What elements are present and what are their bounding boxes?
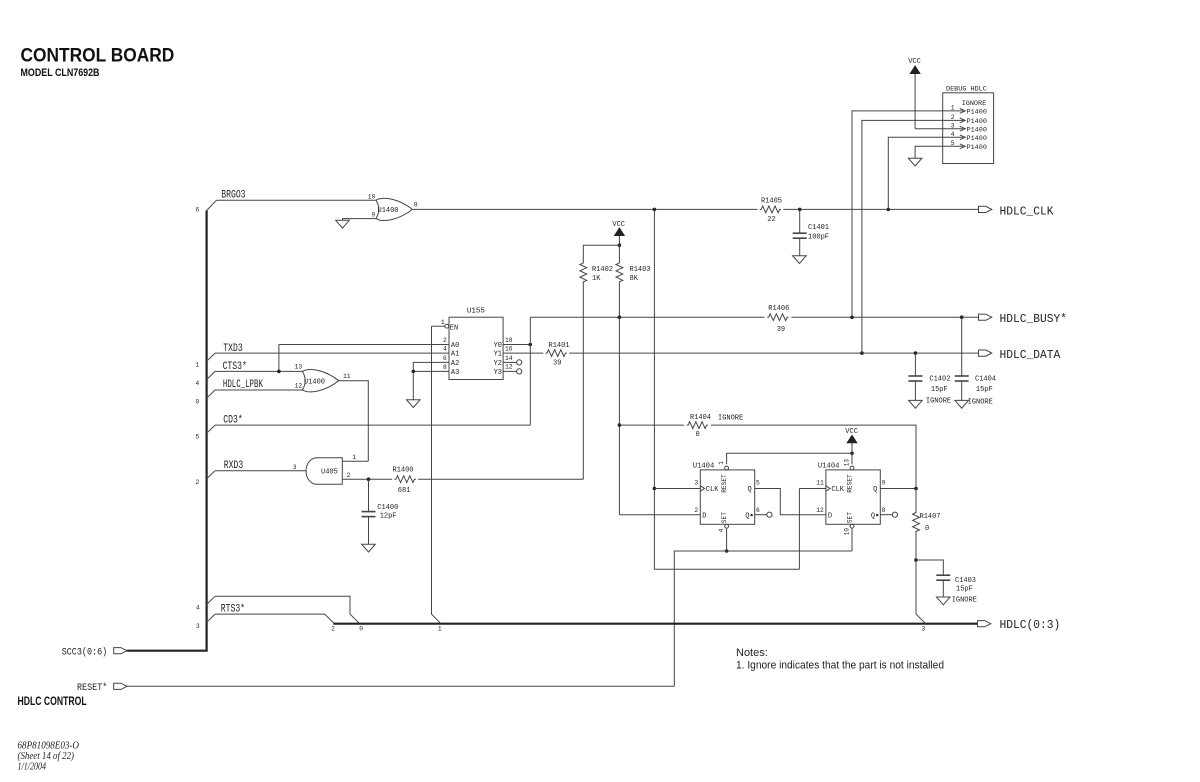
svg-text:RXD3: RXD3 [224, 460, 244, 472]
junction R1404 tap [618, 423, 622, 427]
or-gate U1400 top [376, 200, 379, 218]
svg-text:HDLC CONTROL: HDLC CONTROL [18, 696, 87, 708]
wire TXD3 to U155 A1 [215, 352, 449, 354]
svg-text:SET: SET [847, 512, 854, 523]
pin 13 RESET bubble FF2 [850, 466, 854, 470]
wire R1407 column upper [915, 489, 917, 512]
svg-text:CLK: CLK [831, 486, 844, 494]
svg-text:BRGO3: BRGO3 [221, 189, 245, 201]
bus entry HDLC_LPBK bit 0 [207, 390, 215, 398]
svg-text:R1401: R1401 [549, 342, 570, 350]
svg-text:Q: Q [873, 486, 877, 494]
wire HDLC_DATA line [569, 352, 978, 354]
svg-text:3: 3 [922, 626, 926, 633]
wire R1404 line right [711, 425, 916, 488]
svg-text:1/1/2004: 1/1/2004 [18, 761, 47, 772]
resistor R1401 39 [545, 350, 566, 357]
bus HDLC(0:3) [333, 623, 977, 625]
junction C1401 [798, 208, 802, 212]
pin 4 SET bubble FF1 [725, 524, 729, 528]
bus entry RTS3* bit 3 [207, 614, 215, 622]
svg-text:16: 16 [505, 346, 513, 353]
svg-text:12: 12 [816, 507, 824, 514]
junction C1400 [367, 477, 371, 481]
ground at C1404 [955, 400, 969, 408]
svg-text:P1400: P1400 [967, 144, 987, 152]
svg-text:CTS3*: CTS3* [223, 361, 247, 373]
junction A2 A3 ground [412, 370, 416, 374]
svg-text:R1402: R1402 [592, 266, 613, 274]
svg-text:R1407: R1407 [920, 513, 941, 521]
svg-text:HDLC(0:3): HDLC(0:3) [1000, 618, 1061, 632]
wire CLK riser [653, 209, 655, 569]
bus SCC3 vertical [127, 211, 207, 651]
wire R1402 bottom to RXD3 filter node [582, 283, 584, 479]
wire RTS3* [215, 614, 334, 624]
wire Q9 to R1407 column [880, 488, 916, 490]
resistor R1404 0 IGNORE [687, 422, 708, 429]
connector DEBUG HDLC box [943, 93, 994, 164]
wire FF2 CLK riser [798, 489, 800, 570]
wire CTS3* to U1400 pin 13 [215, 370, 304, 372]
connector HDLC_BUSY* output [979, 314, 992, 320]
wire A2 jog to ground node [413, 362, 449, 371]
junction C1403 tap [914, 558, 918, 562]
svg-text:9: 9 [882, 480, 886, 487]
wire R1403 bottom to HDLC_BUSY [618, 283, 620, 317]
svg-text:681: 681 [398, 487, 411, 495]
svg-text:11: 11 [816, 480, 824, 487]
wire U405 pin 1 [342, 460, 368, 462]
svg-text:5: 5 [195, 434, 199, 441]
wire Y0 to riser [503, 344, 530, 346]
junction FF1 CLK tap [653, 487, 657, 491]
resistor R1406 39 [767, 314, 788, 321]
svg-text:U1404: U1404 [693, 463, 715, 471]
junction C1404 on BUSY [960, 315, 964, 319]
ground at DEBUG pin5 [908, 158, 922, 166]
svg-text:U1400: U1400 [378, 207, 399, 215]
junction Q9 [914, 487, 918, 491]
svg-text:VCC: VCC [908, 58, 921, 66]
svg-text:Y2: Y2 [494, 360, 502, 368]
wire HDLC_LPBK to U1400 pin 12 [215, 389, 304, 391]
wire U1400 pin 9 to ground [343, 219, 376, 221]
ground at C1402 [909, 400, 923, 408]
svg-text:22: 22 [767, 216, 775, 224]
svg-text:15pF: 15pF [931, 386, 948, 394]
svg-text:68P81098E03-O: 68P81098E03-O [18, 741, 80, 752]
wire FF2 CLK feed [799, 488, 826, 490]
svg-text:VCC: VCC [845, 428, 858, 436]
svg-text:MODEL CLN7692B: MODEL CLN7692B [21, 67, 100, 79]
wire HDLC_BUSY line right [791, 316, 978, 318]
junction CLK riser [653, 208, 657, 212]
junction FF1 SET [725, 549, 729, 553]
svg-text:18: 18 [505, 337, 513, 344]
wire A3 to ground node [413, 370, 449, 372]
pin 3 CLK FF1 [700, 486, 704, 491]
svg-text:Notes:: Notes: [736, 647, 768, 659]
svg-text:IGNORE: IGNORE [952, 597, 977, 605]
junction Y0 [529, 343, 533, 347]
wire EN to riser [432, 325, 445, 327]
bus entry CTS3* bit 4 [207, 371, 215, 379]
svg-text:8K: 8K [630, 275, 639, 283]
svg-text:IGNORE: IGNORE [968, 399, 993, 407]
svg-text:2: 2 [195, 479, 199, 486]
svg-text:1: 1 [438, 625, 442, 632]
resistor R1403 8K [616, 261, 623, 283]
svg-text:D: D [702, 512, 706, 520]
wire CD3* [215, 424, 530, 426]
wire DEBUG pin5 to ground [915, 146, 943, 158]
svg-text:0: 0 [195, 399, 199, 406]
wire HDLC_CLK line right [783, 208, 978, 210]
svg-text:U1404: U1404 [818, 463, 840, 471]
junction DEBUG pin1 on BUSY [850, 315, 854, 319]
svg-text:4: 4 [443, 346, 447, 353]
svg-text:12pF: 12pF [380, 512, 397, 520]
wire Q1 to D2 [755, 489, 826, 515]
svg-text:RESET*: RESET* [77, 682, 107, 693]
junction VCC rail [618, 243, 622, 247]
svg-text:TXD3: TXD3 [223, 343, 243, 355]
svg-text:R1405: R1405 [761, 197, 782, 205]
junction DEBUG pin4 drop [887, 208, 891, 212]
ground at C1401 [793, 256, 807, 264]
wire FF2 SET stem [851, 528, 853, 551]
svg-text:10: 10 [368, 193, 376, 200]
svg-text:1: 1 [718, 461, 725, 465]
junction DEBUG pin2 on DATA [860, 351, 864, 355]
svg-text:IGNORE: IGNORE [962, 100, 986, 108]
svg-text:U155: U155 [467, 308, 486, 316]
svg-text:0: 0 [925, 525, 929, 533]
capacitor C1400 12pF [368, 479, 370, 511]
resistor R1402 1K [580, 261, 587, 283]
resistor R1405 [760, 206, 781, 213]
svg-text:4: 4 [718, 528, 725, 532]
svg-text:VCC: VCC [612, 221, 625, 229]
svg-text:C1402: C1402 [929, 375, 950, 383]
svg-text:15pF: 15pF [956, 586, 973, 594]
svg-text:HDLC_BUSY*: HDLC_BUSY* [1000, 312, 1068, 326]
wire FF1 CLK feed [654, 488, 700, 490]
svg-text:Y3: Y3 [494, 369, 502, 377]
svg-text:C1403: C1403 [955, 577, 976, 585]
svg-text:CD3*: CD3* [223, 414, 242, 426]
svg-text:4: 4 [196, 604, 200, 611]
svg-text:Y0: Y0 [494, 342, 502, 350]
svg-text:12: 12 [505, 364, 513, 371]
bus entry RXD3 bit 2 [207, 471, 215, 479]
connector RESET* input [114, 683, 127, 689]
svg-text:2: 2 [347, 472, 351, 479]
svg-text:A2: A2 [451, 360, 459, 368]
wire FF1 D feed [619, 514, 700, 516]
ground at U155 A2 A3 [407, 400, 421, 408]
svg-text:HDLC_DATA: HDLC_DATA [1000, 348, 1061, 362]
svg-text:C1400: C1400 [377, 504, 398, 512]
pin 10 SET bubble FF2 [850, 524, 854, 528]
svg-text:RESET: RESET [721, 474, 728, 493]
svg-text:14: 14 [505, 355, 513, 362]
wire BRGO3 [217, 199, 376, 201]
svg-text:EN: EN [450, 324, 458, 332]
wire U1400 pin 11 to U405 pin 1 [339, 381, 369, 462]
junction CTS3* riser [277, 370, 281, 374]
svg-text:8: 8 [882, 507, 886, 514]
svg-text:9: 9 [372, 212, 376, 219]
connector HDLC_DATA output [979, 350, 992, 356]
wire DEBUG pin2 to DATA [862, 120, 943, 353]
ic U155 box [449, 317, 503, 379]
wire U405 pin 2 to R1400 [342, 478, 392, 480]
svg-text:HDLC_LPBK: HDLC_LPBK [223, 379, 263, 391]
wire Y0 CD3 riser [529, 317, 531, 425]
wire EN riser down to HDLC bus bit 1 [432, 326, 441, 624]
bus entry TXD3 bit 1 [207, 353, 215, 361]
pin 1 EN bubble [445, 324, 449, 328]
svg-text:Q: Q [871, 512, 875, 520]
svg-text:12: 12 [295, 383, 303, 390]
svg-text:U1400: U1400 [304, 378, 325, 386]
svg-text:3: 3 [293, 464, 297, 471]
svg-text:P1400: P1400 [967, 126, 987, 134]
svg-text:6: 6 [443, 355, 447, 362]
svg-text:IGNORE: IGNORE [718, 415, 743, 423]
wire R1404 line left [619, 424, 684, 426]
resistor R1400 681 [394, 476, 416, 483]
wire RESET* line [127, 685, 675, 687]
svg-text:RESET: RESET [847, 474, 854, 493]
svg-text:R1406: R1406 [768, 305, 789, 313]
gate U405 [306, 458, 342, 485]
svg-text:SET: SET [721, 512, 728, 523]
svg-text:P1400: P1400 [967, 135, 987, 143]
capacitor C1402 15pF IGNORE [914, 353, 916, 376]
svg-text:0: 0 [696, 431, 700, 439]
svg-text:Q: Q [745, 512, 749, 520]
wire SET line [674, 551, 852, 686]
junction C1402 on DATA [914, 351, 918, 355]
capacitor C1403 15pF IGNORE [936, 574, 950, 576]
wire VCC to FF2 RESET [851, 453, 853, 464]
wire CTS3* riser to U155 A0 [278, 345, 280, 372]
ground at C1400 [362, 544, 376, 552]
svg-text:11: 11 [343, 373, 351, 380]
svg-text:DEBUG HDLC: DEBUG HDLC [946, 86, 987, 94]
wire DEBUG pin3 to VCC [915, 128, 943, 130]
svg-text:13: 13 [844, 459, 851, 467]
resistor R1407 0 [913, 511, 920, 533]
svg-text:CLK: CLK [706, 486, 719, 494]
svg-text:RTS3*: RTS3* [221, 604, 245, 616]
wire HDLC_BUSY line [530, 316, 764, 318]
connector SCC3(0:6) input [114, 648, 127, 654]
svg-text:P1400: P1400 [967, 109, 987, 117]
svg-text:P1400: P1400 [967, 118, 987, 126]
wire DEBUG pin1 to BUSY [852, 111, 943, 317]
wire ground stem U155 [412, 371, 414, 399]
svg-text:1: 1 [441, 319, 445, 326]
bus entry upper peel bit 4 bottom [207, 596, 215, 604]
svg-text:2: 2 [443, 337, 447, 344]
svg-text:39: 39 [777, 326, 785, 334]
svg-text:8: 8 [443, 364, 447, 371]
svg-text:1. Ignore indicates that the p: 1. Ignore indicates that the part is not… [736, 660, 944, 672]
capacitor C1401 [799, 209, 801, 233]
wire DEBUG pin4 to CLK [888, 137, 942, 209]
svg-text:D: D [828, 512, 832, 520]
wire A0 feed [279, 344, 449, 346]
junction R1403 on BUSY [618, 315, 622, 319]
pin 11 CLK FF2 [826, 486, 830, 491]
wire BUSY riser R1403 column [618, 317, 620, 425]
svg-text:13: 13 [295, 364, 303, 371]
flip-flop U1404 first [700, 470, 754, 524]
wire R1400 to R1402 pullup [418, 478, 583, 480]
svg-text:R1400: R1400 [393, 466, 414, 474]
capacitor C1404 15pF IGNORE [961, 317, 963, 376]
junction VCC resets [850, 452, 854, 456]
svg-text:4: 4 [195, 380, 199, 387]
svg-text:10: 10 [844, 528, 851, 536]
wire VCC to FF1 RESET [727, 453, 852, 464]
svg-text:C1404: C1404 [975, 375, 996, 383]
wire C1403 branch [916, 560, 943, 575]
svg-text:A3: A3 [451, 369, 459, 377]
svg-text:3: 3 [196, 623, 200, 630]
svg-text:R1403: R1403 [630, 266, 651, 274]
flip-flop U1404 second [826, 470, 880, 524]
pin 1 RESET bubble FF1 [725, 466, 729, 470]
svg-text:6: 6 [195, 207, 199, 214]
svg-text:2: 2 [331, 626, 335, 633]
svg-text:2: 2 [694, 507, 698, 514]
wire HDLC_CLK line left [412, 208, 757, 210]
svg-text:15pF: 15pF [976, 386, 993, 394]
wire VCC rail to R1402 [583, 245, 619, 261]
wire RXD3 to U405 pin 3 [215, 470, 307, 472]
connector HDLC_CLK output [979, 206, 992, 212]
svg-text:1: 1 [195, 362, 199, 369]
svg-text:Q: Q [747, 486, 751, 494]
connector HDLC(0:3) output [978, 621, 991, 627]
svg-text:39: 39 [553, 359, 561, 367]
svg-text:A1: A1 [451, 351, 459, 359]
wire FF1 SET stem [726, 528, 728, 551]
svg-text:R1404: R1404 [690, 414, 711, 422]
svg-text:SCC3(0:6): SCC3(0:6) [62, 647, 107, 658]
wire VCC to R1403 [618, 245, 620, 261]
wire peel to HDLC bus bit 0 [215, 596, 360, 623]
svg-text:1: 1 [352, 454, 356, 461]
svg-text:Y1: Y1 [494, 351, 502, 359]
svg-text:HDLC_CLK: HDLC_CLK [1000, 204, 1055, 218]
svg-text:U405: U405 [321, 469, 338, 477]
svg-text:CONTROL BOARD: CONTROL BOARD [21, 45, 175, 67]
svg-text:1K: 1K [592, 275, 601, 283]
bus entry BRGO3 bit 6 [207, 200, 217, 210]
svg-text:IGNORE: IGNORE [926, 398, 951, 406]
svg-text:6: 6 [756, 507, 760, 514]
svg-text:3: 3 [694, 480, 698, 487]
svg-text:A0: A0 [451, 342, 459, 350]
svg-text:5: 5 [756, 480, 760, 487]
svg-text:8: 8 [414, 201, 418, 208]
svg-text:100pF: 100pF [808, 234, 829, 242]
wire CLK cross to FF2 [654, 568, 799, 570]
svg-text:C1401: C1401 [808, 224, 829, 232]
svg-text:0: 0 [359, 625, 363, 632]
bus entry CD3* bit 5 [207, 425, 215, 433]
wire R1407 column lower [916, 533, 926, 624]
ground at U1400 pin 9 [336, 220, 350, 228]
ground at C1403 [937, 597, 951, 605]
or-gate U1400 lower [302, 371, 305, 390]
wire Y1 to R1401 [503, 352, 543, 354]
